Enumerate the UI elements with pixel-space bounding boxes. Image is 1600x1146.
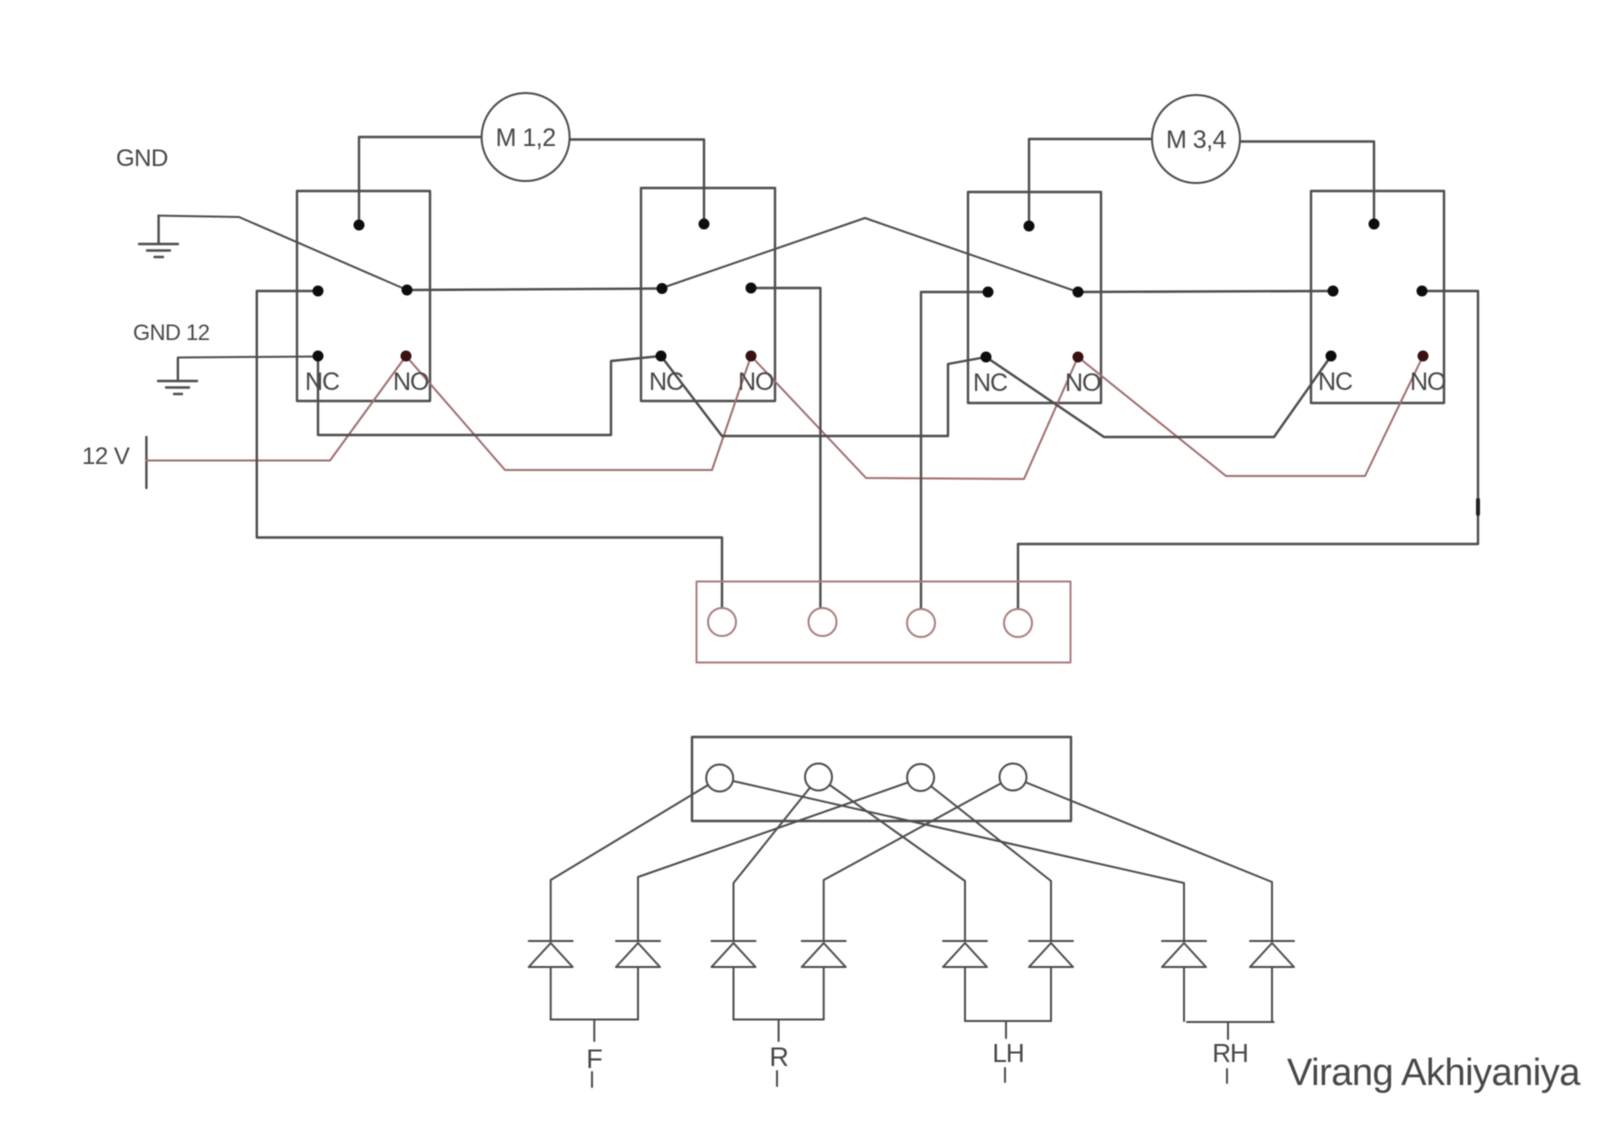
pin K4 common [1417, 286, 1428, 297]
diode D4 [802, 941, 846, 1020]
terminal block TB1 [697, 582, 1071, 663]
terminal TB2-1 [706, 765, 733, 792]
diode D6 [1029, 941, 1073, 1021]
svg-text:M 1,2: M 1,2 [496, 124, 556, 152]
wire TB2-4 to diode D8 [1013, 777, 1273, 941]
wire NC bus chaining all NC contacts [318, 356, 1331, 437]
pin K3 pole [983, 287, 994, 298]
pin K3 NC [981, 352, 992, 363]
wire K1 pole to terminal 1 [257, 291, 722, 614]
diode D7 [1162, 941, 1206, 1021]
wire TB2-2 to diode D5 [819, 777, 966, 941]
wire GND to K1 common [159, 216, 407, 290]
wire K3 common horizontal to K4 common [1078, 291, 1333, 292]
wire M1,2 to K2 coil [570, 140, 704, 225]
svg-text:NO: NO [738, 368, 774, 396]
wire K2 pole to terminal 2 [751, 288, 820, 614]
wire +12V to NO contacts (red) [146, 356, 1423, 479]
pin K1 NC [313, 351, 324, 362]
terminal TB1-1 [708, 608, 736, 636]
diode D5 [943, 941, 987, 1021]
pin K1 pole [313, 286, 324, 297]
tick below R [776, 1071, 778, 1086]
pin K2 coil [699, 219, 710, 230]
svg-text:NC: NC [973, 369, 1008, 397]
svg-text:R: R [769, 1042, 788, 1072]
terminal TB2-3 [907, 764, 934, 791]
pin K4 NC [1326, 351, 1337, 362]
wire TB2-2 to diode D3 [734, 777, 819, 941]
terminal TB1-4 [1004, 609, 1032, 637]
pin K2 NC [656, 351, 667, 362]
wire F pair join [551, 1020, 638, 1042]
diode D3 [712, 941, 756, 1020]
svg-text:NC: NC [1318, 368, 1353, 396]
battery 12V terminal [145, 437, 147, 488]
wire tent K2 common to K3 common [662, 218, 1078, 292]
svg-text:GND 12: GND 12 [133, 320, 210, 345]
pin K1 NO [401, 351, 412, 362]
wire M3,4 to K4 coil [1240, 142, 1374, 225]
pin K4 coil [1369, 219, 1380, 230]
pin K3 common [1073, 287, 1084, 298]
pin K1 coil [354, 220, 365, 231]
svg-text:LH: LH [992, 1038, 1023, 1068]
wire TB2-1 to diode D1 [551, 778, 720, 941]
svg-text:NO: NO [1065, 369, 1101, 397]
pin K3 coil [1024, 221, 1035, 232]
wire M1,2 to K1 coil [359, 137, 481, 225]
wire GND 12 to K1 NC [178, 357, 318, 358]
relay K2 box [641, 188, 775, 401]
wire LH pair join [965, 1021, 1051, 1038]
relay K3 box [968, 192, 1101, 403]
diode D1 [529, 941, 573, 1020]
ground symbol GND 12 [158, 358, 197, 394]
terminal TB1-2 [809, 608, 837, 636]
pin K4 NO [1418, 351, 1429, 362]
pin K2 pole [657, 283, 668, 294]
svg-text:RH: RH [1212, 1038, 1248, 1068]
svg-text:NC: NC [305, 368, 340, 396]
diode D8 [1250, 941, 1294, 1021]
svg-text:12 V: 12 V [82, 443, 130, 470]
pin K4 pole [1328, 286, 1339, 297]
wire RH pair join [1187, 1022, 1274, 1039]
wire M3,4 to K3 coil [1029, 139, 1152, 226]
motor M3,4 [1152, 95, 1240, 183]
tick below LH [1004, 1068, 1006, 1082]
relay K4 box [1311, 191, 1444, 403]
terminal TB2-2 [805, 764, 832, 791]
wire TB2-3 to diode D6 [921, 778, 1051, 941]
svg-text:NC: NC [649, 368, 684, 396]
ground symbol GND [139, 216, 178, 257]
wire K3 pole to terminal 3 [921, 292, 988, 615]
wire TB2-3 to diode D2 [638, 778, 921, 941]
svg-text:Virang Akhiyaniya: Virang Akhiyaniya [1287, 1052, 1581, 1094]
wire TB2-1 to diode D7 [720, 778, 1184, 941]
terminal TB1-3 [907, 609, 935, 637]
wire K1 common horizontal to K2 common [407, 289, 662, 291]
tick below F [591, 1072, 593, 1087]
wire R pair join [734, 1020, 824, 1042]
mark on K4 wire [1476, 500, 1480, 514]
svg-text:M 3,4: M 3,4 [1166, 126, 1227, 154]
svg-text:NO: NO [393, 368, 429, 396]
svg-text:GND: GND [116, 145, 168, 172]
pin K3 NO [1073, 352, 1084, 363]
pin K1 common [402, 285, 413, 296]
svg-text:F: F [586, 1044, 602, 1074]
relay K1 box [297, 191, 430, 401]
wire TB2-4 to diode D4 [824, 777, 1013, 941]
wire K4 pole to terminal 4 [1018, 291, 1478, 615]
svg-text:NO: NO [1410, 368, 1446, 396]
pin K2 NO [746, 351, 757, 362]
terminal TB2-4 [1000, 764, 1027, 791]
diode D2 [616, 941, 660, 1020]
pin K2 common [746, 283, 757, 294]
terminal block TB2 [692, 737, 1071, 821]
motor M1,2 [482, 93, 570, 181]
tick below RH [1226, 1069, 1228, 1083]
